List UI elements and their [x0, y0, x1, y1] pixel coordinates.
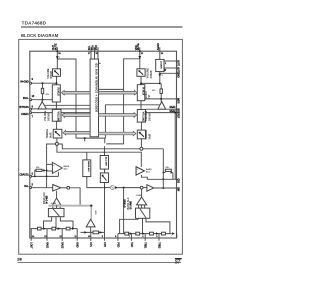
- wire muxB to vol2: [140, 101, 142, 110]
- svg-text:14dB: 14dB: [49, 132, 52, 138]
- ALC R opamp: [136, 167, 144, 176]
- junction v1 on out rail: [104, 187, 106, 189]
- chain R arrow 1: [130, 232, 133, 235]
- refL triangle apex wire: [41, 100, 43, 102]
- chain R pins: [130, 234, 132, 241]
- svg-text:0/30dB: 0/30dB: [50, 71, 53, 79]
- wire sum node left arm: [47, 144, 56, 164]
- switch box L: [48, 208, 64, 216]
- out R to right pin: [154, 187, 177, 189]
- svg-text:IN MUX: IN MUX: [141, 87, 144, 96]
- wire TB out2: [164, 67, 177, 69]
- svg-text:VDD: VDD: [95, 45, 98, 50]
- wire right pin 73: [160, 72, 177, 74]
- svg-text:OUT: OUT: [52, 45, 55, 51]
- wide arrow bus to vol2: [99, 113, 137, 118]
- svg-text:BYPASS: BYPASS: [20, 106, 30, 109]
- header title: [21, 20, 183, 27]
- arrow into node L: [43, 169, 46, 172]
- center v1 box2-abox: [104, 169, 106, 173]
- gray switch circle: [110, 186, 114, 190]
- svg-text:IN2R: IN2R: [176, 98, 178, 104]
- svg-text:IN-GND: IN-GND: [20, 81, 29, 83]
- wire sum node bottom to line B: [57, 145, 141, 167]
- v2 lower to chain R: [123, 188, 125, 234]
- arrow after gray switch: [115, 186, 118, 189]
- node vertical R: [162, 149, 164, 188]
- out L circle to gray band: [70, 188, 81, 205]
- ALC L plus input wire: [47, 163, 53, 165]
- svg-text:L: L: [165, 63, 167, 65]
- volume 1: [52, 109, 61, 122]
- wire vol2 to trebB: [140, 122, 142, 130]
- small attenuator abox: [100, 173, 108, 183]
- wire trebA to sum node: [56, 138, 58, 142]
- section heading: [21, 33, 59, 38]
- ALC R triangle: [136, 167, 144, 175]
- svg-text:PGD: PGD: [116, 242, 118, 247]
- svg-text:CP1: CP1: [89, 242, 91, 247]
- chain L pins down: [30, 229, 32, 241]
- svg-text:BAS1: BAS1: [45, 242, 48, 249]
- svg-text:REF1: REF1: [170, 107, 177, 109]
- bottom pin stub 117: [117, 234, 119, 241]
- ALC L bottom feed: [57, 172, 59, 177]
- svg-text:GND: GND: [176, 73, 178, 78]
- svg-text:VOLUME: VOLUME: [57, 112, 60, 123]
- switch R fan out: [120, 218, 138, 233]
- svg-text:VDD: VDD: [136, 45, 138, 50]
- top pin labels: [54, 43, 160, 50]
- svg-text:8: 8: [32, 106, 34, 108]
- sum circle R: [140, 147, 143, 150]
- arrow into vert R: [171, 171, 173, 174]
- wire sum node right arm to line A: [58, 144, 163, 149]
- up triangle L apex wire: [56, 191, 58, 198]
- wire volB to muxB: [140, 76, 142, 84]
- svg-text:BASS: BASS: [64, 165, 70, 168]
- svg-text:20: 20: [161, 53, 164, 55]
- volume attenuator A: [53, 69, 61, 77]
- svg-text:TRB1: TRB1: [144, 242, 146, 249]
- svg-text:GND: GND: [76, 242, 78, 247]
- circle after out L: [61, 187, 67, 189]
- svg-text:I2C BUS INTERFACE + DECODER: I2C BUS INTERFACE + DECODER: [94, 63, 97, 112]
- svg-text:BLOCK DIAGRAM: BLOCK DIAGRAM: [21, 33, 59, 38]
- junction dot band: [90, 205, 92, 207]
- figure frame: [19, 39, 183, 254]
- wire muxB top junction: [141, 82, 160, 84]
- vertical label near v2: [124, 199, 126, 208]
- wire branch right feedback: [106, 59, 139, 144]
- out rail to gray switch: [105, 187, 111, 189]
- svg-text:CP2: CP2: [103, 242, 105, 247]
- svg-text:-: -: [137, 172, 138, 176]
- junction line B v1: [104, 151, 106, 153]
- refR triangle: [158, 102, 166, 110]
- gray band: [49, 205, 93, 207]
- right pin stubs: [177, 60, 179, 62]
- svg-text:2/8: 2/8: [17, 257, 22, 261]
- junction dot muxB top: [140, 82, 142, 84]
- up triangle R apex wire: [141, 189, 143, 197]
- svg-text:14dB: 14dB: [148, 133, 151, 139]
- svg-text:TDA7468D: TDA7468D: [22, 20, 47, 25]
- svg-text:IN MUX: IN MUX: [57, 88, 60, 97]
- out rail mid to circle R: [118, 187, 141, 189]
- refR mid tap wire: [105, 104, 159, 106]
- svg-text:BAS2: BAS2: [61, 242, 64, 249]
- svg-text:0/-14dB: 0/-14dB: [47, 195, 49, 204]
- svg-text:S7: S7: [175, 259, 181, 265]
- chain M line: [81, 231, 105, 233]
- left pin labels: [32, 79, 35, 186]
- arrowhead down R top: [138, 56, 141, 59]
- svg-text:IN2-L: IN2-L: [23, 98, 29, 100]
- wire box1 down to out rail: [87, 177, 103, 188]
- treble attenuator A: [53, 129, 62, 138]
- right pin labels: [176, 60, 178, 191]
- chain M arrow: [100, 231, 103, 234]
- svg-text:6: 6: [32, 173, 34, 175]
- junction dot feedback: [84, 137, 86, 139]
- chain R arrow 2: [142, 232, 145, 235]
- wire TB down: [159, 72, 161, 84]
- rail VREF1 right segment: [146, 108, 177, 110]
- resistor R wire: [163, 172, 165, 174]
- out triangle L: [53, 185, 61, 192]
- svg-text:10: 10: [32, 96, 35, 98]
- center v1 lower to chain: [104, 188, 106, 233]
- rail out L from pin: [30, 187, 53, 189]
- chain R resistor 1: [125, 232, 129, 235]
- svg-text:BASS ALC: BASS ALC: [127, 197, 130, 209]
- svg-text:OUT: OUT: [177, 232, 179, 237]
- input mux B: [137, 85, 145, 101]
- svg-text:AGND: AGND: [157, 43, 160, 50]
- svg-text:28: 28: [58, 53, 61, 55]
- wire left input pin9: [30, 82, 57, 84]
- arrowhead down L top: [56, 56, 59, 59]
- chain R line: [118, 233, 172, 235]
- wire top pin to volume B: [139, 47, 141, 69]
- ALC R bottom feed: [142, 175, 148, 179]
- svg-text:0/-14dB: 0/-14dB: [131, 201, 133, 210]
- footer rule: [18, 261, 182, 263]
- chain M resistor: [93, 231, 99, 234]
- center v1 abox to rail: [104, 183, 106, 188]
- out triangle R input circle: [140, 186, 143, 189]
- svg-text:VCC: VCC: [130, 242, 132, 247]
- ALC L opamp: [52, 162, 62, 173]
- svg-text:0/87dB: 0/87dB: [148, 113, 151, 121]
- svg-text:-: -: [53, 170, 54, 174]
- chain L resistor 3: [66, 227, 70, 230]
- wire R resistor branch: [160, 83, 162, 89]
- refL mid tap wire: [45, 104, 91, 106]
- mid filter box2: [100, 156, 108, 170]
- resistor R vertical: [160, 89, 162, 94]
- wire muxA to vol1: [55, 102, 57, 109]
- svg-text:0 6dB: 0 6dB: [136, 195, 142, 197]
- svg-text:ALC: ALC: [146, 170, 151, 173]
- svg-text:CBASS1: CBASS1: [20, 174, 30, 177]
- bus interface box: [90, 59, 98, 137]
- input mux A: [52, 85, 60, 102]
- left pin circles: [30, 82, 32, 84]
- chain R end arrow: [172, 232, 175, 235]
- ST logo: [175, 258, 182, 265]
- top right block TB: [156, 59, 164, 71]
- switch box R: [136, 208, 150, 218]
- wire TB out1: [164, 60, 177, 62]
- chain R resistor 3: [150, 232, 154, 235]
- bass filter box1: [83, 160, 91, 177]
- resistor ALC R: [165, 169, 171, 171]
- wide arrow bus to trebB: [99, 131, 137, 136]
- switch R inputs: [138, 205, 140, 208]
- chain R resistor 2: [136, 232, 140, 235]
- up triangle M: [86, 219, 95, 227]
- svg-text:LOUT: LOUT: [30, 242, 32, 249]
- pin numbers top: [58, 53, 164, 55]
- ALC L pin wire: [30, 175, 59, 177]
- treble attenuator B: [137, 130, 145, 139]
- svg-text:2: 2: [162, 75, 164, 77]
- wide arrow bus to vol1: [62, 113, 90, 118]
- arrowhead down TB: [158, 74, 161, 77]
- svg-text:RIN: RIN: [176, 187, 178, 191]
- ALC L minus input wire: [47, 170, 53, 172]
- svg-text:9: 9: [32, 79, 34, 81]
- wire vol1 to trebA: [56, 121, 58, 129]
- junction dot L apex: [42, 99, 44, 101]
- wire line B to box1: [86, 152, 88, 160]
- svg-text:22k: 22k: [165, 167, 169, 169]
- svg-text:7: 7: [32, 117, 34, 119]
- wide arrow bus to muxA: [62, 90, 91, 95]
- chain L arrow 2: [58, 227, 61, 230]
- svg-text:0/-30dB: 0/-30dB: [124, 199, 126, 208]
- svg-text:0dB: 0dB: [95, 210, 97, 214]
- sum circle L: [55, 142, 58, 145]
- block side labels: [36, 57, 179, 237]
- bus box right step: [99, 62, 101, 64]
- up triangle R: [137, 197, 147, 205]
- svg-text:CB2: CB2: [176, 179, 178, 184]
- volume 2: [137, 110, 145, 123]
- chain L arrow 3: [72, 227, 75, 230]
- wire top pin to volume A: [56, 47, 58, 69]
- svg-text:TRB2: TRB2: [157, 242, 159, 249]
- wide arrow bus to trebA: [63, 130, 90, 135]
- chain L arrow 1: [43, 227, 46, 230]
- svg-text:0/87dB: 0/87dB: [47, 113, 50, 121]
- switch L inputs: [52, 207, 54, 209]
- switch L fan out: [44, 217, 52, 229]
- bottom pin labels: [30, 242, 160, 249]
- chain L line: [30, 228, 77, 230]
- svg-text:OUT1: OUT1: [176, 60, 178, 67]
- svg-text:BASS: BASS: [146, 168, 152, 171]
- wire bus ctrl right: [99, 88, 124, 90]
- center v1 upper: [104, 138, 106, 143]
- up triangle L: [52, 198, 61, 205]
- svg-text:5: 5: [32, 185, 34, 187]
- right inner vertical from rail2: [174, 113, 176, 180]
- junction dot L input: [42, 82, 44, 84]
- wire TB box top pin: [159, 47, 161, 59]
- center vertical drop: [104, 105, 106, 138]
- pin numbers bottom: [32, 236, 158, 238]
- junction v2 lower on rail: [123, 187, 125, 189]
- rail VREF1 left segment: [30, 108, 90, 110]
- svg-text:LOUDN: LOUDN: [160, 61, 162, 69]
- junction dot R tb: [159, 82, 161, 84]
- svg-text:REF2: REF2: [170, 111, 177, 113]
- chain L resistor 1: [38, 227, 42, 230]
- IC boundary box: [30, 51, 177, 238]
- wire volA to muxA: [56, 76, 58, 85]
- svg-text:47k: 47k: [152, 89, 156, 92]
- svg-text:0 6dB: 0 6dB: [51, 203, 57, 205]
- rail2 R to pin: [147, 178, 176, 180]
- resistor L vertical: [41, 88, 43, 93]
- rail VREF2 left segment: [30, 112, 90, 114]
- bus top stubs: [90, 47, 92, 59]
- junction refR apex: [160, 98, 162, 100]
- svg-text:ALC DET: ALC DET: [105, 157, 108, 167]
- ALC node vertical L: [46, 164, 48, 188]
- chain M arrow in: [84, 231, 87, 234]
- svg-text:22: 22: [141, 53, 144, 55]
- svg-text:0/30dB: 0/30dB: [150, 70, 153, 78]
- stub below dot: [84, 138, 86, 141]
- resistor ALC L: [36, 169, 42, 171]
- svg-text:IN-L: IN-L: [24, 186, 29, 188]
- wire muxB out to right pin: [145, 98, 177, 100]
- svg-text:R: R: [165, 70, 167, 72]
- chain L resistor 2: [52, 227, 56, 230]
- svg-text:4 ST: 4 ST: [148, 94, 151, 100]
- extra label columns: [47, 45, 177, 209]
- chain M pins: [90, 232, 92, 240]
- svg-text:47k: 47k: [46, 93, 50, 96]
- rail VREF2 right segment: [146, 112, 177, 114]
- svg-text:CREF1: CREF1: [21, 114, 29, 116]
- wide arrow bus to muxB: [99, 90, 138, 95]
- vert to rail2 R: [172, 173, 174, 180]
- junction dots alcL: [46, 176, 48, 178]
- resistor ALC L feed: [35, 170, 36, 176]
- chain R resistor 4: [162, 232, 166, 235]
- wire branch left feedback: [57, 59, 105, 138]
- svg-text:CREF: CREF: [176, 112, 178, 119]
- wire trebB to sum node R: [140, 139, 142, 148]
- gray vertical: [91, 206, 93, 219]
- svg-text:22k: 22k: [36, 167, 40, 169]
- chain R arrow 3: [156, 232, 159, 235]
- junction dot top rail R: [139, 50, 141, 52]
- center v1 mid: [104, 146, 106, 155]
- svg-text:BASS ALC: BASS ALC: [87, 161, 90, 172]
- left edge pin names: [20, 81, 30, 188]
- refL triangle: [38, 102, 46, 109]
- svg-text:BASS ALC: BASS ALC: [43, 192, 46, 204]
- junction dot top rail L: [56, 50, 58, 52]
- svg-text:ALC: ALC: [64, 167, 69, 170]
- volume attenuator B: [137, 69, 145, 77]
- junction dot L volA-muxA: [56, 82, 58, 84]
- svg-text:VOLUME: VOLUME: [141, 112, 144, 123]
- wire L resistor branch: [42, 83, 44, 88]
- mid triangle base down: [90, 227, 92, 233]
- wire left input pin10: [30, 99, 53, 101]
- out triangle R: [147, 185, 154, 192]
